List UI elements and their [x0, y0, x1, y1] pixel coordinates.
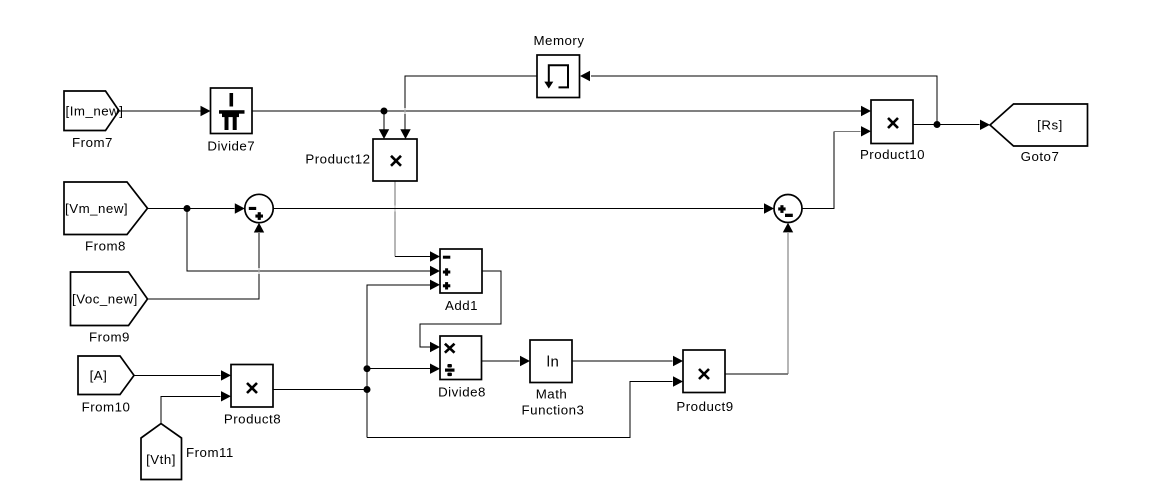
svg-text:From7: From7 — [72, 135, 113, 150]
Divide7 block — [207, 88, 255, 154]
wire Product12 output to Add1 input1 — [395, 181, 440, 262]
wire Sum2 output to Product10 input2 — [802, 126, 871, 208]
wire Add1 output to Divide8 input1 — [420, 271, 501, 352]
Divide8 block — [438, 336, 486, 400]
node junction on Divide7 line feeding Product12 — [381, 108, 388, 115]
wire Math Function3 to Product9 input1 — [572, 356, 683, 366]
Product10 block — [860, 100, 925, 162]
wire From9 to Sum1 bottom input — [148, 223, 265, 299]
svg-text:Divide8: Divide8 — [438, 385, 486, 400]
wire branch to Add1 input3 — [367, 280, 440, 290]
svg-text:ln: ln — [547, 354, 560, 371]
wire Product8 output to branch node — [273, 389, 367, 391]
svg-text:Goto7: Goto7 — [1021, 149, 1060, 164]
Sum1 circle (minus plus) — [245, 194, 273, 222]
wire From8 to Sum1 — [148, 203, 245, 213]
wire Sum1 output to Sum2 — [273, 203, 774, 213]
wire Divide8 to Math Function3 — [482, 356, 531, 366]
svg-text:[Vth]: [Vth] — [146, 452, 176, 467]
From11 tag [Vth] — [141, 424, 234, 480]
node junction on From8 line — [184, 205, 191, 212]
wire From10 to Product8 input1 — [134, 370, 231, 380]
svg-text:From9: From9 — [89, 330, 130, 345]
Memory block — [533, 33, 584, 98]
svg-text:[Im_new]: [Im_new] — [66, 104, 124, 119]
wire Product10 output to Goto7 — [913, 120, 990, 130]
wire From7 to Divide7 — [119, 106, 211, 116]
wire From11 to Product8 input2 — [161, 391, 231, 423]
Add1 block — [440, 249, 482, 313]
node junction on Product10 output — [934, 121, 941, 128]
wire branch to Divide8 input2 — [367, 364, 440, 374]
svg-text:Product9: Product9 — [676, 399, 733, 414]
svg-text:Divide7: Divide7 — [207, 139, 255, 154]
svg-text:Memory: Memory — [533, 33, 584, 48]
wire branch to Product9 input2 — [367, 376, 683, 437]
svg-text:[Vm_new]: [Vm_new] — [65, 201, 128, 216]
svg-text:From11: From11 — [186, 445, 234, 460]
node branch dot lower (Product8 output) — [364, 386, 371, 393]
svg-text:Math: Math — [536, 387, 568, 402]
From9 tag [Voc_new] — [71, 272, 148, 345]
svg-text:From10: From10 — [82, 400, 131, 415]
Goto7 tag [Rs] — [990, 104, 1088, 164]
From8 tag [Vm_new] — [64, 182, 148, 254]
Sum2 circle (plus minus) — [774, 195, 802, 223]
From7 tag [Im_new] — [64, 91, 123, 150]
wire Divide7 to Product10 input1 — [252, 106, 871, 116]
svg-text:Add1: Add1 — [445, 298, 478, 313]
wire feedback junction up and left to Memory input — [580, 71, 937, 125]
wire junction down to Product12 input1 — [379, 111, 389, 139]
svg-text:From8: From8 — [85, 239, 126, 254]
wire branch vertical trunk — [366, 285, 368, 438]
svg-text:Function3: Function3 — [522, 403, 585, 418]
svg-text:[Rs]: [Rs] — [1037, 118, 1063, 133]
Product8 block — [224, 365, 281, 427]
Product12 block — [305, 139, 417, 181]
svg-text:Product8: Product8 — [224, 412, 281, 427]
wire Memory output to Product12 input2 — [400, 76, 537, 139]
svg-text:[A]: [A] — [90, 368, 108, 383]
wire Product9 output up to Sum2 bottom input — [725, 223, 793, 374]
Product9 block — [676, 350, 733, 414]
Math Function3 block (ln) — [522, 340, 585, 418]
svg-text:Product12: Product12 — [305, 152, 370, 167]
node branch dot upper (to Divide8) — [364, 365, 371, 372]
svg-text:Product10: Product10 — [860, 147, 925, 162]
From10 tag [A] — [78, 356, 134, 415]
wire junction down to Add1 input2 — [187, 209, 440, 277]
svg-text:[Voc_new]: [Voc_new] — [72, 292, 138, 307]
